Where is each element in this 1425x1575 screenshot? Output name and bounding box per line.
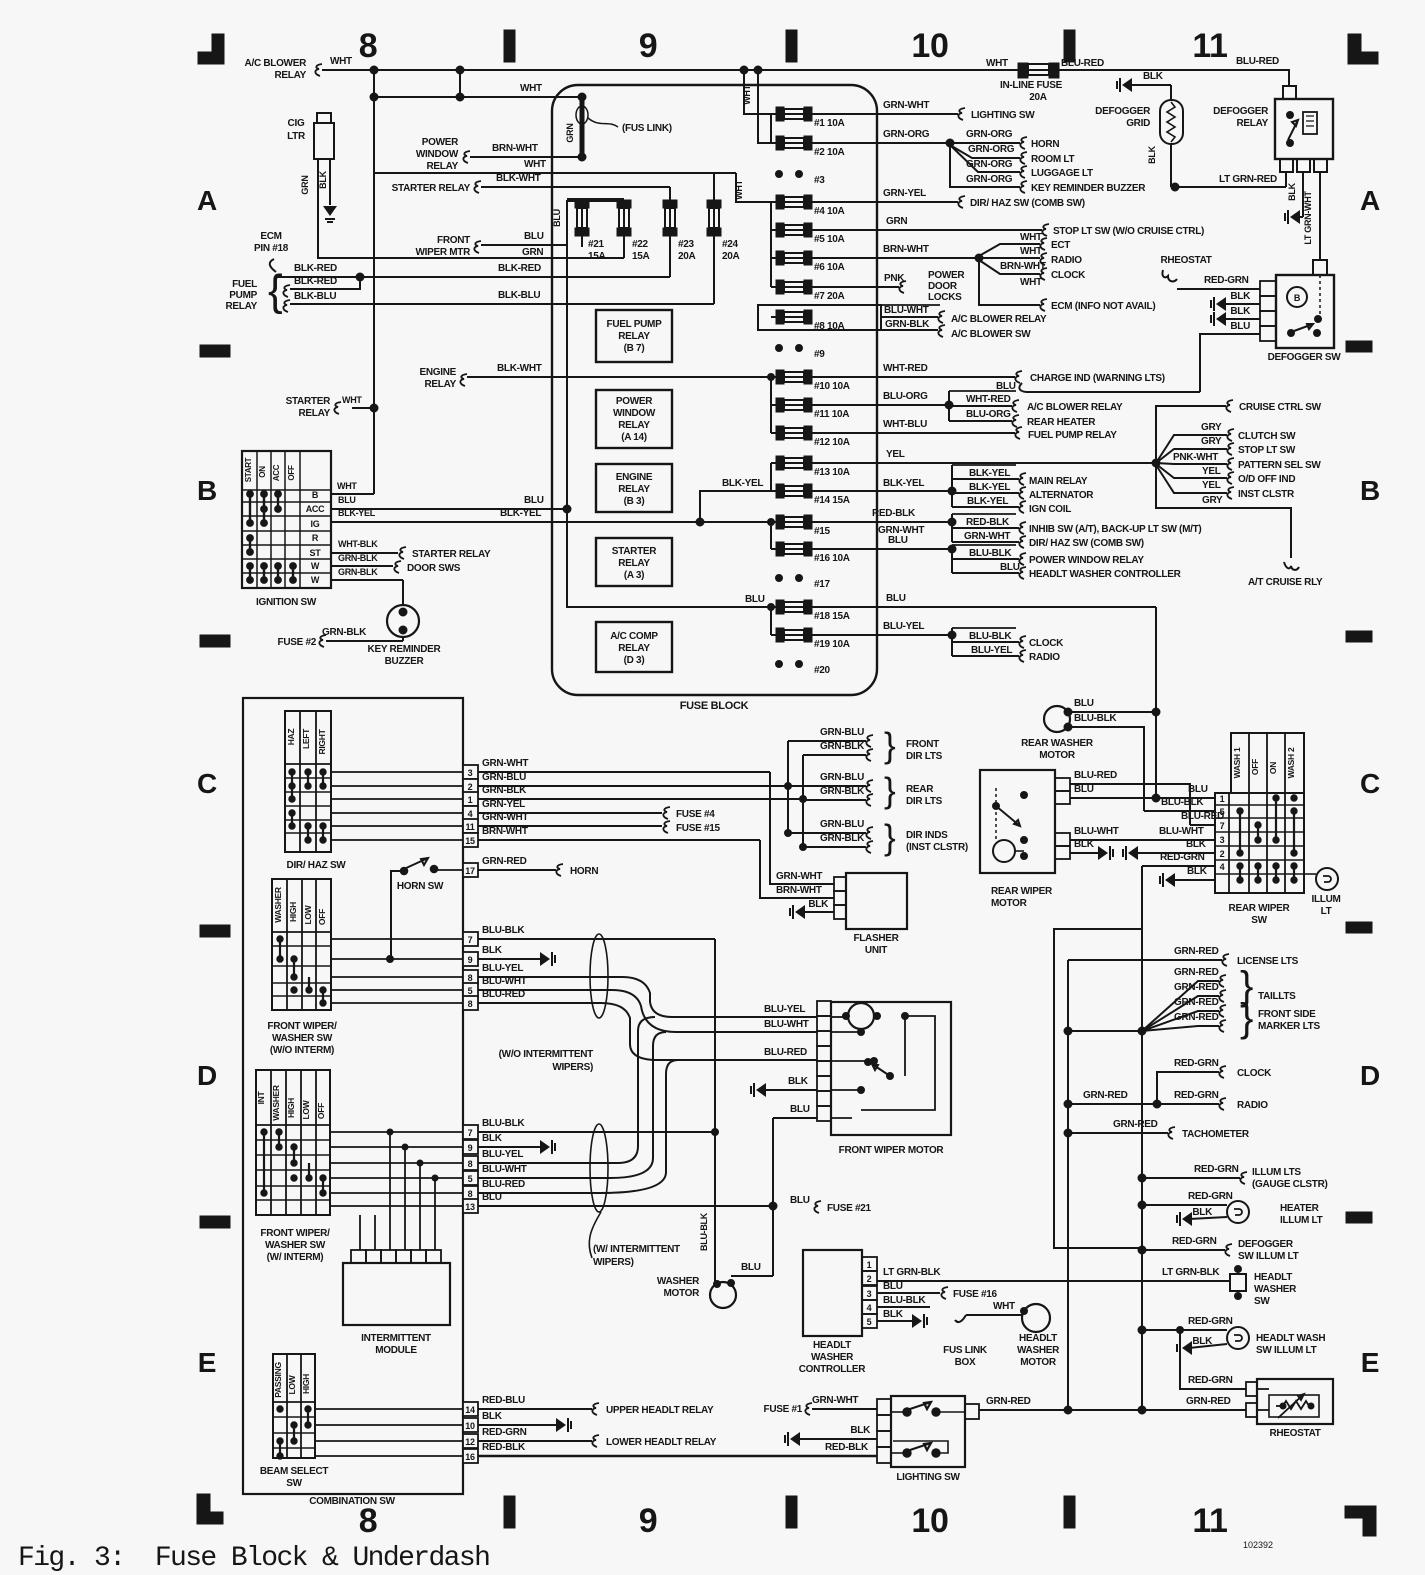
- wire BLU-RED w/o interm: [478, 1003, 817, 1060]
- svg-text:LUGGAGE LT: LUGGAGE LT: [1031, 168, 1093, 179]
- wire BLK-BLU fuel pump relay to fuse 24: [283, 300, 290, 312]
- svg-text:IGNITION SW: IGNITION SW: [256, 597, 317, 608]
- svg-text:BLU: BLU: [524, 231, 544, 242]
- svg-text:STOP LT SW (W/O CRUISE CTRL): STOP LT SW (W/O CRUISE CTRL): [1053, 226, 1204, 237]
- wire BLK gnd defogger sw 2: [1216, 312, 1226, 326]
- vertical trunk wire left: [373, 70, 375, 494]
- wire BLU rear wiper motor: [1070, 797, 1215, 799]
- wire GRN-WHT fuse1 to lighting sw: [812, 113, 958, 115]
- wire BLK defogger grid top: [1122, 78, 1132, 92]
- svg-text:BLU-WHT: BLU-WHT: [1159, 826, 1204, 837]
- svg-text:RED-BLK: RED-BLK: [966, 517, 1010, 528]
- svg-text:ILLUM LTS: ILLUM LTS: [1252, 1167, 1301, 1178]
- svg-text:7: 7: [468, 1128, 473, 1138]
- svg-text:BLU: BLU: [552, 209, 562, 227]
- svg-text:#18 15A: #18 15A: [814, 611, 850, 622]
- svg-text:BLK: BLK: [1192, 1336, 1213, 1347]
- svg-text:#19 10A: #19 10A: [814, 639, 850, 650]
- wire BLK w/o interm to ground: [478, 958, 540, 960]
- svg-text:GRY: GRY: [1202, 495, 1223, 506]
- svg-text:BLU: BLU: [1074, 784, 1094, 795]
- svg-text:GRN-WHT: GRN-WHT: [482, 812, 528, 823]
- svg-text:BLU-BLK: BLU-BLK: [969, 631, 1012, 642]
- wire BLU-WHT w interm: [478, 1032, 666, 1178]
- svg-text:BLK: BLK: [1230, 306, 1251, 317]
- svg-text:#15: #15: [814, 526, 831, 537]
- fuse #18: [776, 600, 784, 614]
- svg-text:BLK-WHT: BLK-WHT: [496, 173, 541, 184]
- svg-text:GRN-RED: GRN-RED: [482, 856, 527, 867]
- svg-text:BOX: BOX: [955, 1357, 976, 1368]
- svg-text:GRN-BLU: GRN-BLU: [482, 772, 526, 783]
- wire GRN-RED clock/radio: [1068, 1103, 1157, 1105]
- defogger sw: [1313, 260, 1327, 275]
- wire BLK-YEL branch fuse 14: [700, 491, 771, 522]
- heater illum lt bulb: [1227, 1201, 1249, 1223]
- svg-text:4: 4: [867, 1303, 872, 1313]
- svg-text:RED-BLK: RED-BLK: [825, 1442, 869, 1453]
- svg-text:GRN-BLK: GRN-BLK: [338, 553, 378, 563]
- svg-text:#9: #9: [814, 349, 825, 360]
- svg-text:IN-LINE FUSE: IN-LINE FUSE: [1000, 80, 1063, 91]
- svg-text:BLU-RED: BLU-RED: [1236, 56, 1279, 67]
- svg-text:BLK-YEL: BLK-YEL: [883, 478, 924, 489]
- svg-text:CONTROLLER: CONTROLLER: [799, 1364, 867, 1375]
- svg-text:#24: #24: [722, 239, 739, 250]
- svg-text:ILLUM: ILLUM: [1311, 894, 1340, 905]
- svg-text:HORN: HORN: [570, 866, 598, 877]
- intermittent module: [343, 1263, 450, 1325]
- fuse #4: [776, 195, 784, 209]
- wire BLK w interm to ground: [478, 1146, 540, 1148]
- wire fuse 22 bottom to GRN: [623, 236, 625, 258]
- svg-text:15: 15: [465, 836, 475, 846]
- svg-text:BLU-YEL: BLU-YEL: [883, 621, 924, 632]
- wire RED-GRN rear wiper sw vertical V1: [1141, 866, 1143, 1410]
- svg-text:REAR HEATER: REAR HEATER: [1027, 417, 1096, 428]
- svg-text:BLK: BLK: [318, 170, 328, 188]
- svg-text:O/D OFF IND: O/D OFF IND: [1238, 474, 1295, 485]
- svg-text:GRN-BLU: GRN-BLU: [820, 772, 864, 783]
- fuse #19: [776, 628, 784, 642]
- svg-text:BLU-WHT: BLU-WHT: [764, 1019, 809, 1030]
- svg-text:BLU: BLU: [1074, 698, 1094, 709]
- wire WHT-RED fuse10 to charge ind: [812, 376, 1015, 378]
- fuse #13: [776, 456, 784, 470]
- svg-text:RELAY: RELAY: [425, 379, 457, 390]
- svg-text:LT GRN-BLK: LT GRN-BLK: [883, 1267, 941, 1278]
- svg-text:14: 14: [465, 1405, 475, 1415]
- svg-text:DIR/ HAZ SW (COMB SW): DIR/ HAZ SW (COMB SW): [1029, 538, 1144, 549]
- wire BLU-BLK w interm: [478, 1131, 715, 1133]
- svg-text:GRN: GRN: [522, 247, 543, 258]
- svg-text:WHT-BLU: WHT-BLU: [883, 419, 927, 430]
- wire BLK front wiper motor ground: [756, 1083, 766, 1097]
- svg-text:BLU-RED: BLU-RED: [482, 989, 525, 1000]
- svg-text:GRY: GRY: [1201, 422, 1222, 433]
- svg-text:BLK: BLK: [1187, 866, 1208, 877]
- svg-text:GRN-BLU: GRN-BLU: [820, 819, 864, 830]
- wire PNK fuse7 to power door locks: [812, 286, 899, 288]
- rear washer motor: [1044, 706, 1070, 732]
- svg-text:LT GRN-WHT: LT GRN-WHT: [1303, 191, 1313, 245]
- svg-text:CRUISE CTRL SW: CRUISE CTRL SW: [1239, 402, 1322, 413]
- svg-text:GRN-BLK: GRN-BLK: [338, 567, 378, 577]
- wire WHT ignition B: [331, 493, 374, 495]
- svg-text:BLU: BLU: [338, 495, 356, 505]
- svg-text:20A: 20A: [678, 251, 696, 262]
- svg-text:GRN-BLK: GRN-BLK: [482, 785, 527, 796]
- node on WHT trunk: [370, 66, 378, 74]
- svg-text:STARTER RELAY: STARTER RELAY: [392, 183, 471, 194]
- wire BLU return charge ind loop: [1019, 383, 1026, 392]
- svg-text:PNK-WHT: PNK-WHT: [1173, 452, 1218, 463]
- fuse 21 15A: [575, 200, 589, 208]
- svg-text:GRN-BLK: GRN-BLK: [885, 319, 930, 330]
- svg-text:RHEOSTAT: RHEOSTAT: [1269, 1428, 1320, 1439]
- wire BLK rear wiper sw to ground: [1128, 846, 1138, 860]
- svg-text:10: 10: [911, 27, 948, 65]
- svg-text:BLK: BLK: [1230, 291, 1251, 302]
- svg-text:BLU: BLU: [1230, 321, 1250, 332]
- wire BLU front wiper mtr: [474, 241, 481, 253]
- svg-text:BLK: BLK: [883, 1309, 904, 1320]
- svg-text:#22: #22: [632, 239, 649, 250]
- svg-text:A/C BLOWER: A/C BLOWER: [245, 58, 308, 69]
- svg-text:WHT-RED: WHT-RED: [883, 363, 928, 374]
- wire row2 GRN-BLU: [331, 785, 463, 787]
- svg-text:BLU: BLU: [883, 1281, 903, 1292]
- svg-text:FRONT: FRONT: [437, 235, 470, 246]
- svg-text:9: 9: [639, 1502, 658, 1540]
- wire BLU-BLK w/o interm: [478, 938, 715, 940]
- svg-text:WASHER: WASHER: [1254, 1284, 1297, 1295]
- svg-text:BEAM SELECT: BEAM SELECT: [260, 1466, 329, 1477]
- wire WHT headlt washer motor: [966, 1314, 1022, 1316]
- svg-text:WASH 1: WASH 1: [1232, 747, 1242, 778]
- svg-text:OFF: OFF: [316, 1103, 326, 1119]
- fuse #16: [776, 542, 784, 556]
- left bus segments fuse column: [770, 114, 772, 143]
- svg-text:SW ILLUM LT: SW ILLUM LT: [1238, 1251, 1299, 1262]
- svg-text:INHIB SW (A/T), BACK-UP LT SW: INHIB SW (A/T), BACK-UP LT SW (M/T): [1029, 524, 1201, 535]
- svg-text:FRONT SIDE: FRONT SIDE: [1258, 1009, 1316, 1020]
- svg-text:LOWER HEADLT RELAY: LOWER HEADLT RELAY: [606, 1437, 717, 1448]
- svg-text:RED-GRN: RED-GRN: [1174, 1090, 1219, 1101]
- rear wiper motor: [980, 770, 1055, 873]
- svg-text:#2 10A: #2 10A: [814, 147, 845, 158]
- svg-text:WASHER: WASHER: [273, 887, 283, 923]
- svg-text:FRONT WIPER/: FRONT WIPER/: [260, 1228, 330, 1239]
- wire GRN fuse5 to stop lt sw: [812, 229, 1042, 231]
- svg-text:ECM: ECM: [260, 231, 281, 242]
- svg-text:MOTOR: MOTOR: [1020, 1357, 1057, 1368]
- svg-text:(W/O INTERM): (W/O INTERM): [270, 1045, 334, 1056]
- svg-text:FRONT WIPER MOTOR: FRONT WIPER MOTOR: [839, 1145, 945, 1156]
- svg-text:D: D: [197, 1060, 217, 1091]
- wire LT GRN-BLK headlt washer sw: [877, 1280, 1230, 1282]
- svg-text:RED-GRN: RED-GRN: [1160, 852, 1205, 863]
- rheostat: [1246, 1382, 1257, 1396]
- wire BLU fuse16 bundle: [812, 548, 952, 550]
- fuse #8: [776, 310, 784, 324]
- svg-text:11: 11: [466, 822, 475, 832]
- svg-text:WHT-RED: WHT-RED: [966, 394, 1011, 405]
- svg-text:C: C: [197, 768, 217, 799]
- svg-text:BLU: BLU: [1000, 562, 1020, 573]
- svg-text:BLU-BLK: BLU-BLK: [1074, 713, 1117, 724]
- svg-text:KEY REMINDER BUZZER: KEY REMINDER BUZZER: [1031, 183, 1146, 194]
- svg-text:A: A: [1360, 185, 1380, 216]
- svg-text:12: 12: [465, 1437, 475, 1447]
- wires beam select rows: [315, 1408, 463, 1410]
- svg-text:GRN-RED: GRN-RED: [1174, 967, 1219, 978]
- svg-text:GRN-WHT: GRN-WHT: [883, 100, 929, 111]
- fuse #10: [776, 370, 784, 384]
- svg-text:RADIO: RADIO: [1029, 652, 1060, 663]
- svg-text:STARTER: STARTER: [612, 546, 657, 557]
- wire BLU-YEL w interm: [478, 1017, 655, 1163]
- svg-text:WINDOW: WINDOW: [613, 408, 656, 419]
- wire BLU front wiper motor: [773, 1117, 817, 1119]
- svg-text:LEFT: LEFT: [301, 728, 311, 749]
- svg-text:WASHER: WASHER: [1017, 1345, 1060, 1356]
- svg-text:#6 10A: #6 10A: [814, 262, 845, 273]
- svg-text:HEADLT WASHER CONTROLLER: HEADLT WASHER CONTROLLER: [1029, 569, 1182, 580]
- svg-text:ALTERNATOR: ALTERNATOR: [1029, 490, 1094, 501]
- wire row4 GRN-YEL to fuse #4: [331, 812, 463, 814]
- wire taillts fan: [1068, 1030, 1142, 1032]
- svg-text:BRN-WHT: BRN-WHT: [482, 826, 528, 837]
- svg-text:1: 1: [468, 795, 473, 805]
- svg-text:ENGINE: ENGINE: [616, 472, 653, 483]
- wire BLU-WHT w/o interm: [478, 990, 817, 1032]
- wire GRN-RED license lts: [1068, 959, 1222, 961]
- svg-text:BLU-WHT: BLU-WHT: [482, 1164, 527, 1175]
- wire BLU-ORG fuse11 bundle: [812, 404, 949, 406]
- svg-text:7: 7: [468, 935, 473, 945]
- svg-text:GRN-RED: GRN-RED: [1186, 1396, 1231, 1407]
- wire WHT-BLU fuse12 to fuel pump relay: [812, 432, 1015, 434]
- svg-text:BLU-YEL: BLU-YEL: [482, 1149, 523, 1160]
- svg-text:MAIN RELAY: MAIN RELAY: [1029, 476, 1088, 487]
- svg-text:7: 7: [1220, 821, 1225, 831]
- svg-text:FUSE #1: FUSE #1: [764, 1404, 803, 1415]
- svg-text:#13 10A: #13 10A: [814, 467, 850, 478]
- svg-text:RHEOSTAT: RHEOSTAT: [1160, 255, 1211, 266]
- svg-text:WHT: WHT: [337, 481, 357, 491]
- svg-text:BLK: BLK: [788, 1076, 809, 1087]
- svg-text:3: 3: [468, 768, 473, 778]
- fuse 24 20A: [707, 200, 721, 208]
- svg-text:GRN-RED: GRN-RED: [1174, 1012, 1219, 1023]
- svg-text:RELAY: RELAY: [618, 643, 650, 654]
- wire WHT a/c blower relay trunk: [322, 69, 1020, 71]
- svg-text:9: 9: [468, 955, 473, 965]
- svg-text:DEFOGGER SW: DEFOGGER SW: [1268, 352, 1342, 363]
- dir/haz sw grid: [285, 711, 331, 852]
- svg-text:3: 3: [1220, 835, 1225, 845]
- svg-text:B: B: [197, 475, 217, 506]
- svg-text:HORN: HORN: [1031, 139, 1059, 150]
- svg-text:BLU-BLK: BLU-BLK: [699, 1212, 709, 1251]
- svg-text:(INST CLSTR): (INST CLSTR): [906, 842, 968, 853]
- lighting sw: [877, 1399, 891, 1415]
- svg-text:STOP LT SW: STOP LT SW: [1238, 445, 1296, 456]
- svg-text:YEL: YEL: [1202, 466, 1221, 477]
- svg-text:FLASHER: FLASHER: [853, 933, 899, 944]
- svg-text:R: R: [312, 533, 319, 543]
- wire LT GRN-WHT defogger relay to sw: [1319, 172, 1321, 260]
- cruise fan branches: [1156, 435, 1227, 463]
- svg-text:(GAUGE CLSTR): (GAUGE CLSTR): [1252, 1179, 1328, 1190]
- wire BLU-YEL w/o interm: [478, 977, 817, 1017]
- svg-text:FUSE #4: FUSE #4: [676, 809, 715, 820]
- svg-text:LIGHTING SW: LIGHTING SW: [971, 110, 1035, 121]
- wire WHT feed fuse 4 bus: [736, 173, 771, 202]
- wire BLU fuse18 vertical: [1155, 607, 1157, 798]
- svg-text:B: B: [312, 490, 319, 500]
- svg-text:RED-BLU: RED-BLU: [482, 1395, 525, 1406]
- svg-text:GRN-WHT: GRN-WHT: [964, 531, 1010, 542]
- svg-text:GRN: GRN: [886, 216, 907, 227]
- svg-text:8: 8: [359, 1502, 378, 1540]
- svg-text:WIPER MTR: WIPER MTR: [415, 247, 471, 258]
- svg-text:GRN-YEL: GRN-YEL: [883, 188, 926, 199]
- key reminder buzzer: [387, 605, 419, 637]
- headlt wash sw illum lt bulb: [1227, 1327, 1249, 1349]
- svg-text:FUSE #2: FUSE #2: [278, 637, 317, 648]
- svg-text:A/C BLOWER SW: A/C BLOWER SW: [951, 329, 1031, 340]
- svg-text:RED-GRN: RED-GRN: [1194, 1164, 1239, 1175]
- svg-text:#14 15A: #14 15A: [814, 495, 850, 506]
- svg-text:1: 1: [1220, 794, 1225, 804]
- svg-text:E: E: [198, 1347, 216, 1378]
- wire row17 GRN-RED to horn: [478, 869, 556, 871]
- svg-text:FUS LINK: FUS LINK: [943, 1345, 988, 1356]
- wire BLU-BLK controller row4: [877, 1306, 930, 1308]
- svg-text:W: W: [311, 561, 320, 571]
- wire GRN-RED lighting sw to rheostat: [979, 1409, 1246, 1411]
- svg-text:LOW: LOW: [287, 1374, 297, 1394]
- wire fuse 24 leads: [713, 173, 715, 200]
- svg-text:UNIT: UNIT: [865, 945, 887, 956]
- wire row1 GRN-BLK: [331, 798, 463, 800]
- svg-text:8: 8: [468, 1159, 473, 1169]
- svg-text:GRN-WHT: GRN-WHT: [482, 758, 528, 769]
- svg-text:GRN-ORG: GRN-ORG: [968, 144, 1015, 155]
- svg-text:WHT: WHT: [742, 84, 752, 104]
- svg-text:MARKER LTS: MARKER LTS: [1258, 1021, 1320, 1032]
- svg-text:WINDOW: WINDOW: [416, 149, 459, 160]
- svg-text:GRN: GRN: [565, 123, 575, 142]
- svg-text:WHT: WHT: [986, 58, 1008, 69]
- svg-text:SW: SW: [286, 1478, 302, 1489]
- svg-text:E: E: [1361, 1347, 1379, 1378]
- wire BLK defogger relay to ground: [1302, 172, 1304, 217]
- svg-text:REAR: REAR: [906, 784, 934, 795]
- svg-text:MODULE: MODULE: [375, 1345, 417, 1356]
- svg-text:BLK: BLK: [482, 945, 503, 956]
- svg-text:W: W: [311, 575, 320, 585]
- svg-text:FUSE #21: FUSE #21: [827, 1203, 871, 1214]
- svg-text:LOCKS: LOCKS: [928, 292, 962, 303]
- front wiper motor: [831, 1002, 951, 1135]
- svg-text:BLK-BLU: BLK-BLU: [498, 290, 540, 301]
- svg-text:BLK-YEL: BLK-YEL: [722, 478, 763, 489]
- wire BLK controller row5 to ground: [877, 1320, 912, 1322]
- wire GRN-RED license vertical V3: [1067, 960, 1069, 1410]
- fuse #11: [776, 398, 784, 412]
- svg-text:BLK: BLK: [1192, 1207, 1213, 1218]
- svg-text:BLU: BLU: [886, 593, 906, 604]
- wire BLK lighting sw ground: [790, 1432, 800, 1446]
- svg-text:BLU-WHT: BLU-WHT: [884, 305, 929, 316]
- wire GRN-WHT to flasher: [770, 772, 834, 884]
- svg-text:RED-GRN: RED-GRN: [1188, 1316, 1233, 1327]
- svg-text:BLU-BLK: BLU-BLK: [1161, 797, 1204, 808]
- wire GRN-BLK fuse8 to a/c blower sw: [881, 329, 938, 331]
- svg-text:CIG: CIG: [288, 118, 305, 129]
- svg-text:B: B: [1294, 293, 1301, 303]
- svg-text:RADIO: RADIO: [1237, 1100, 1268, 1111]
- svg-text:GRN-WHT: GRN-WHT: [812, 1395, 858, 1406]
- svg-text:RELAY: RELAY: [226, 301, 258, 312]
- wire YEL fuse13 to cruise fan: [812, 462, 1156, 464]
- svg-text:5: 5: [1220, 807, 1225, 817]
- wire BRN-WHT fuse6 fanout: [812, 257, 979, 259]
- svg-text:CLOCK: CLOCK: [1051, 270, 1086, 281]
- svg-text:WHT: WHT: [1020, 246, 1042, 257]
- svg-text:WHT: WHT: [993, 1301, 1015, 1312]
- svg-text:GRN-ORG: GRN-ORG: [966, 159, 1013, 170]
- rear wiper sw: [1231, 733, 1304, 793]
- svg-text:GRN-RED: GRN-RED: [1083, 1090, 1128, 1101]
- wire RED-GRN defogger sw illum lt: [1142, 1249, 1225, 1251]
- wire BLU controller row3 to fuse #16: [877, 1292, 940, 1294]
- svg-text:RELAY: RELAY: [275, 70, 307, 81]
- wire WHT feed fuse 1: [744, 70, 771, 114]
- svg-text:BLU: BLU: [790, 1195, 810, 1206]
- svg-text:Fig. 3: Fuse Block & Underdas: Fig. 3: Fuse Block & Underdash: [18, 1543, 489, 1574]
- svg-text:4: 4: [1220, 862, 1225, 872]
- svg-text:WASHER SW: WASHER SW: [265, 1240, 326, 1251]
- svg-text:HEADLT WASH: HEADLT WASH: [1256, 1333, 1325, 1344]
- svg-text:YEL: YEL: [1202, 480, 1221, 491]
- front wiper/washer sw w interm grid: [256, 1070, 330, 1215]
- svg-text:GRN-RED: GRN-RED: [1174, 997, 1219, 1008]
- wire WHT bus mid: [374, 172, 736, 174]
- svg-text:WIPERS): WIPERS): [593, 1257, 634, 1268]
- svg-text:RED-BLK: RED-BLK: [482, 1442, 526, 1453]
- svg-text:BLK-YEL: BLK-YEL: [967, 496, 1008, 507]
- svg-text:POWER: POWER: [616, 396, 653, 407]
- svg-text:GRN-RED: GRN-RED: [1174, 946, 1219, 957]
- svg-text:WHT-BLK: WHT-BLK: [338, 539, 378, 549]
- wire row3 GRN-WHT: [331, 771, 463, 773]
- wire BLU vertical to washer motor: [772, 1118, 774, 1276]
- svg-text:SW ILLUM LT: SW ILLUM LT: [1256, 1345, 1317, 1356]
- svg-text:(FUS LINK): (FUS LINK): [622, 123, 672, 134]
- svg-text:LIGHTING SW: LIGHTING SW: [896, 1472, 960, 1483]
- svg-text:KEY REMINDER: KEY REMINDER: [368, 644, 442, 655]
- svg-text:BLU: BLU: [1188, 784, 1208, 795]
- svg-text:B: B: [1360, 475, 1380, 506]
- fus link GRN bar: [580, 97, 585, 157]
- svg-text:}: }: [884, 726, 896, 765]
- svg-text:A/C BLOWER RELAY: A/C BLOWER RELAY: [951, 314, 1047, 325]
- svg-text:A/C BLOWER RELAY: A/C BLOWER RELAY: [1027, 402, 1123, 413]
